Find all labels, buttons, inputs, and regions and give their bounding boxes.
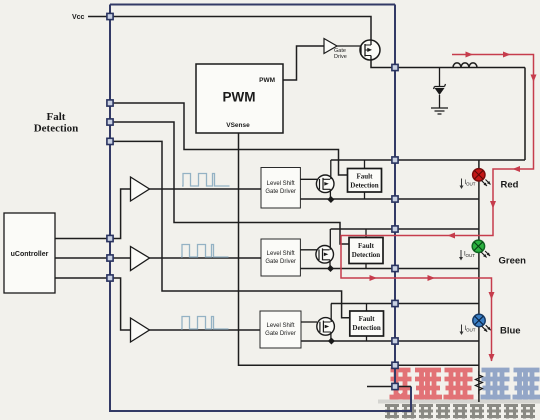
LED D-green	[472, 240, 490, 257]
svg-text:Level Shift: Level Shift	[267, 181, 295, 187]
transistor Q1	[316, 160, 334, 199]
uController U3	[4, 213, 55, 293]
svg-text:OUT: OUT	[466, 253, 476, 258]
wire buffer3 out	[149, 329, 260, 331]
waveform pwm icon row2	[181, 245, 229, 258]
wire switch node	[371, 60, 525, 68]
level shift gate driver 3	[260, 311, 301, 348]
wire Vcc rail	[88, 17, 371, 41]
svg-text:Gate Driver: Gate Driver	[265, 259, 296, 265]
node source dot row1	[327, 196, 334, 203]
wire row2 drain rail	[331, 228, 479, 230]
svg-text:Level Shift: Level Shift	[266, 323, 294, 329]
svg-text:Detection: Detection	[352, 324, 380, 332]
node Iout1 label	[460, 179, 476, 190]
svg-text:Red: Red	[501, 180, 519, 191]
svg-text:Fault: Fault	[359, 315, 376, 323]
wire buffer1 out	[149, 188, 261, 190]
wire VSense down and right to sense resistor	[239, 133, 479, 365]
wire fault feedback C row3	[110, 141, 350, 317]
svg-text:uController: uController	[11, 251, 49, 258]
PWM block U2	[196, 64, 283, 133]
wire fd3 bottom	[366, 336, 368, 341]
op-amp gate drive buffer U4	[324, 39, 337, 54]
svg-text:Level Shift: Level Shift	[267, 251, 295, 257]
svg-text:Fault: Fault	[358, 242, 375, 250]
diode D1 freewheel	[439, 68, 441, 87]
node source dot row3	[328, 337, 335, 344]
svg-text:VSense: VSense	[226, 122, 250, 129]
LED D-red	[473, 169, 491, 186]
wire uController out1 to buffer1	[55, 189, 131, 239]
svg-text:OUT: OUT	[466, 182, 476, 187]
svg-text:Blue: Blue	[500, 326, 521, 337]
svg-text:OUT: OUT	[466, 328, 476, 333]
wire PWM output to gate driver	[283, 46, 324, 80]
wire uController out3 to buffer3	[55, 278, 131, 330]
op-amp buffer3	[131, 318, 150, 342]
node Iout2 label	[459, 250, 475, 261]
wire gate row2	[300, 249, 317, 251]
watermark underline bar	[378, 400, 540, 404]
transistor Q3	[317, 304, 335, 342]
ground below diode	[431, 108, 448, 114]
red path arrows	[370, 52, 537, 362]
svg-text:Gate Driver: Gate Driver	[265, 331, 296, 337]
wire fd2 bottom	[365, 264, 367, 269]
junction boxes on blue bus	[107, 13, 398, 389]
svg-text:Detection: Detection	[350, 182, 378, 190]
wire bottom stub	[367, 386, 411, 388]
wire uController out2 to buffer2	[55, 257, 131, 259]
watermark big text	[390, 370, 540, 401]
wire row1 drain rail	[331, 159, 525, 161]
svg-text:Detection: Detection	[352, 251, 380, 259]
wire buffer2 out	[149, 257, 261, 259]
wire fault feedback B row2	[110, 122, 349, 244]
wire right side down to row1 rail	[524, 68, 526, 161]
wire LED string vertical	[478, 160, 480, 402]
resistor Rsense	[475, 371, 482, 394]
op-amp buffer2	[131, 247, 150, 271]
node source dot row2	[327, 265, 334, 272]
wire gate to top mosfet	[337, 45, 361, 47]
fault detection 1	[348, 169, 382, 193]
fault detection 2	[349, 238, 383, 264]
svg-text:Falt: Falt	[47, 111, 66, 123]
wire fd2 top	[365, 229, 367, 238]
wire gate row3	[301, 321, 317, 323]
svg-text:PWM: PWM	[223, 90, 256, 105]
wire fd1 bottom	[364, 192, 366, 199]
waveform pwm icon row3	[181, 317, 229, 330]
wire fault feedback A row1	[110, 103, 348, 175]
wire row2 source rail	[300, 268, 479, 270]
wire gate row1	[300, 178, 317, 180]
wire row3 drain rail	[331, 303, 479, 305]
svg-text:Green: Green	[499, 256, 527, 267]
wire row1 source rail	[300, 198, 479, 200]
svg-text:Gate Driver: Gate Driver	[265, 189, 296, 195]
svg-text:Detection: Detection	[34, 123, 79, 135]
transistor Q0 top mosfet	[360, 40, 380, 60]
node Iout3 label	[460, 325, 476, 336]
transistor Q2	[316, 229, 334, 269]
svg-text:Fault: Fault	[357, 173, 374, 181]
wire red current path	[341, 55, 534, 362]
wire fd3 top	[366, 304, 368, 312]
wire fd1 top	[364, 160, 366, 169]
wire row3 source rail	[300, 340, 479, 342]
watermark small gray text	[385, 406, 535, 419]
blue bus rectangle	[110, 5, 411, 412]
level shift gate driver 1	[261, 168, 300, 209]
svg-text:PWM: PWM	[259, 77, 275, 84]
waveform pwm icon row1	[182, 174, 230, 187]
inductor L1	[453, 63, 477, 68]
svg-text:Drive: Drive	[334, 54, 347, 60]
svg-text:Vcc: Vcc	[72, 14, 85, 21]
LED D-blue	[473, 314, 491, 331]
level shift gate driver 2	[261, 239, 300, 276]
op-amp buffer1	[131, 177, 150, 201]
fault detection 3	[350, 311, 384, 336]
